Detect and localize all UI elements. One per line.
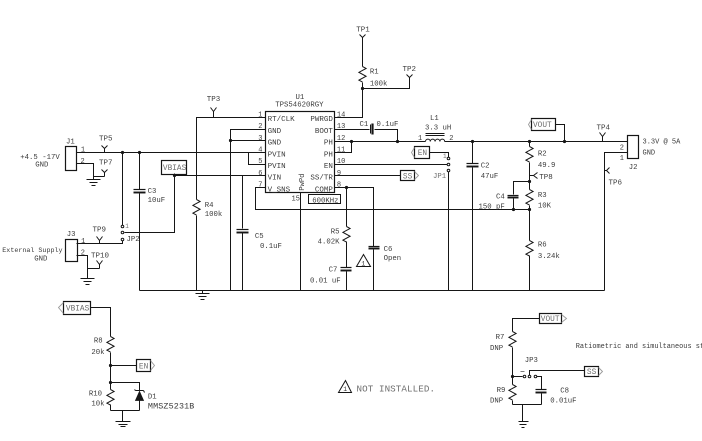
test point TP3 — [207, 96, 221, 118]
svg-text:R2: R2 — [538, 151, 547, 159]
ground below J3 — [81, 269, 95, 285]
svg-text:D1: D1 — [148, 394, 157, 402]
jumper JP3 — [513, 372, 537, 378]
test point TP7 — [99, 160, 113, 177]
node junction VBIAS VIN — [173, 174, 176, 177]
wire U1 GND pin2 — [231, 130, 266, 141]
wire to D1 branch — [111, 383, 140, 391]
test point TP5 — [99, 135, 113, 152]
wire COMP pin8 — [335, 188, 374, 247]
wire PowerPad pin15 to bus — [300, 193, 302, 291]
svg-text:PH: PH — [324, 151, 333, 159]
svg-text:10K: 10K — [538, 203, 552, 211]
net flag EN lower — [137, 360, 155, 372]
svg-text:3.24k: 3.24k — [538, 253, 561, 261]
wire D1 R10 bottom — [111, 410, 140, 412]
capacitor C5 0.1uF — [237, 176, 282, 291]
svg-text:MMSZ5231B: MMSZ5231B — [148, 402, 195, 412]
resistor R4 100k — [193, 200, 223, 291]
svg-text:3: 3 — [258, 135, 262, 143]
svg-text:11: 11 — [337, 147, 345, 155]
svg-text:R5: R5 — [331, 229, 340, 237]
svg-text:C2: C2 — [481, 163, 490, 171]
svg-text:JP1: JP1 — [433, 173, 447, 181]
node junction C1 to PH rail — [396, 140, 399, 143]
wire R9 C8 bottom — [513, 404, 542, 406]
svg-text:2: 2 — [81, 158, 85, 166]
wire JP3 pin2 to SS flag lower — [530, 371, 585, 376]
connector J2 — [620, 136, 639, 173]
svg-text:3.3V @ 5A: 3.3V @ 5A — [643, 139, 682, 147]
svg-text:150 pF: 150 pF — [479, 204, 505, 212]
svg-text:SS/TR: SS/TR — [310, 175, 333, 183]
svg-text:RT/CLK: RT/CLK — [268, 116, 296, 124]
wire JP1 pin3 to bus — [448, 172, 450, 291]
svg-text:PWRGD: PWRGD — [310, 116, 333, 124]
svg-text:R10: R10 — [89, 391, 102, 399]
svg-text:TP9: TP9 — [93, 227, 107, 235]
inductor L1 3.3uH — [418, 115, 454, 143]
600KHz note box — [309, 195, 341, 206]
svg-text:VIN: VIN — [268, 175, 282, 183]
ground below J1 — [87, 177, 101, 186]
svg-text:+4.5 -17V: +4.5 -17V — [20, 154, 60, 162]
svg-text:R1: R1 — [370, 69, 379, 77]
resistor R5 4.02K — [318, 188, 351, 268]
wire PWRGD pin14 to R1 — [335, 89, 363, 118]
wire EN flag to JP1 pin1 — [430, 153, 449, 158]
svg-text:C5: C5 — [255, 233, 264, 241]
net flag EN upper — [412, 147, 430, 159]
node junction C4 bottom sense line — [512, 208, 515, 211]
triangle note 1 near C7 — [357, 255, 371, 268]
svg-text:1: 1 — [361, 260, 365, 267]
svg-text:10k: 10k — [91, 401, 105, 409]
wire VBIAS stem to VIN line and JP2 — [125, 174, 175, 233]
wire J3 pin1 to JP2 — [77, 241, 123, 244]
svg-text:14: 14 — [337, 111, 345, 119]
svg-text:GND: GND — [643, 150, 656, 158]
connector J3 — [66, 231, 86, 261]
net flag VOUT upper — [529, 119, 556, 131]
zener diode D1 MMSZ5231B — [135, 390, 195, 412]
jumper JP2 — [121, 223, 139, 244]
resistor R9 DNP — [490, 385, 516, 406]
svg-text:1: 1 — [343, 386, 347, 393]
op-amp U1 TPS54620RGY body — [266, 94, 335, 193]
ground below D1 — [116, 411, 131, 427]
capacitor C2 47uF — [467, 142, 499, 291]
jumper JP1 — [433, 157, 450, 181]
wire VIN line pin6 — [175, 175, 266, 177]
node junction R7 R9 JP3 — [511, 375, 514, 378]
svg-text:1: 1 — [620, 155, 624, 163]
svg-text:TPS54620RGY: TPS54620RGY — [275, 101, 324, 109]
node junction rail JP2 branch — [121, 151, 124, 154]
node junction VOUT rail — [563, 140, 566, 143]
svg-text:J1: J1 — [66, 138, 75, 146]
svg-text:GND: GND — [268, 140, 282, 148]
wire V_SNS pin7 sense line — [256, 188, 530, 210]
svg-text:C7: C7 — [329, 267, 338, 275]
wire VOUT rail L1 to J2 — [445, 141, 628, 143]
wire PH pin12 rail to L1 — [335, 141, 426, 143]
svg-text:4: 4 — [258, 147, 262, 155]
node junction R10 D1 top — [109, 381, 112, 384]
svg-text:BOOT: BOOT — [315, 128, 334, 136]
wire VBIAS to R8 — [91, 308, 111, 337]
wire VOUT lower to R7 — [513, 319, 540, 332]
net flag VOUT lower — [540, 314, 567, 325]
svg-text:R7: R7 — [496, 334, 505, 342]
resistor R6 3.24k — [526, 241, 561, 291]
capacitor C4 150pF — [479, 182, 530, 212]
wire J1 pin2 to ground and TP7 — [77, 164, 105, 177]
svg-text:6: 6 — [258, 170, 262, 178]
node junction R1 TP2 PWRGD — [361, 87, 364, 90]
svg-text:PVIN: PVIN — [268, 151, 286, 159]
svg-text:Ratiometric and simultaneous s: Ratiometric and simultaneous startup — [576, 343, 702, 351]
capacitor C7 0.01uF — [310, 267, 352, 291]
triangle note 1 NOT INSTALLED — [339, 381, 352, 394]
svg-text:2: 2 — [620, 144, 624, 152]
svg-text:0.1uF: 0.1uF — [260, 243, 282, 251]
svg-text:PVIN: PVIN — [268, 163, 286, 171]
svg-text:1: 1 — [418, 135, 422, 143]
wire SS/TR pin9 to SS flag — [335, 175, 401, 177]
wire U1 GND pin3 — [231, 140, 266, 142]
node junction R3 bottom sense — [528, 208, 531, 211]
svg-text:JP2: JP2 — [127, 236, 140, 244]
wire JP2 drop from rail — [122, 153, 124, 226]
ground below JP3 — [519, 405, 529, 428]
svg-text:C6: C6 — [384, 246, 393, 254]
resistor R2 49.9 — [526, 142, 556, 190]
svg-text:PH: PH — [324, 140, 333, 148]
svg-text:GND: GND — [268, 128, 282, 136]
svg-text:2: 2 — [81, 250, 85, 258]
svg-text:49.9: 49.9 — [538, 162, 556, 170]
resistor R1 100k — [359, 41, 388, 89]
svg-text:GND: GND — [34, 255, 48, 263]
wire J3 pin2 to ground and TP10 — [77, 256, 100, 269]
ground bus wire — [140, 290, 605, 292]
svg-text:TP7: TP7 — [99, 160, 113, 168]
svg-text:1: 1 — [125, 223, 129, 230]
resistor R3 10K — [526, 190, 552, 241]
svg-text:EN: EN — [324, 163, 333, 171]
svg-text:C4: C4 — [496, 194, 505, 202]
svg-text:9: 9 — [337, 170, 341, 178]
resistor R7 DNP — [490, 332, 516, 385]
test point TP4 — [597, 125, 611, 142]
wire GND pins to bus — [230, 141, 232, 291]
node junction EN divider — [109, 364, 112, 367]
svg-text:DNP: DNP — [490, 345, 503, 353]
test point TP6 — [605, 168, 623, 188]
net flag SS upper — [401, 171, 419, 182]
wire J2 pin1 to bus — [605, 153, 628, 291]
svg-text:R3: R3 — [538, 192, 547, 200]
svg-text:L1: L1 — [430, 115, 439, 123]
svg-text:J3: J3 — [67, 231, 76, 239]
node junction COMP R5 — [345, 186, 348, 189]
svg-text:0.01uF: 0.01uF — [550, 398, 576, 406]
node junction C4 top — [528, 180, 531, 183]
svg-text:7: 7 — [258, 182, 262, 190]
node junction rail C3 branch — [138, 151, 141, 154]
svg-text:J2: J2 — [629, 164, 638, 172]
capacitor C3 10uF — [134, 153, 166, 291]
svg-text:EN: EN — [139, 363, 149, 371]
svg-text:20k: 20k — [91, 349, 105, 357]
test point TP8 — [530, 173, 553, 182]
node junction rail C2 — [471, 140, 474, 143]
svg-text:COMP: COMP — [315, 186, 334, 194]
svg-text:TP4: TP4 — [597, 125, 611, 133]
svg-text:1: 1 — [81, 238, 85, 246]
svg-text:R8: R8 — [94, 338, 103, 346]
svg-text:C8: C8 — [560, 388, 569, 396]
resistor R10 10k — [89, 390, 114, 411]
wire VOUT flag to rail — [556, 125, 565, 142]
svg-text:1: 1 — [258, 111, 262, 119]
svg-text:PwPd: PwPd — [299, 174, 307, 191]
connector J1 — [66, 138, 86, 170]
svg-text:SS: SS — [403, 173, 413, 181]
svg-text:100k: 100k — [205, 211, 223, 219]
node junction rail R2 divider — [528, 140, 531, 143]
node junction PH pins — [350, 140, 353, 143]
svg-text:EN: EN — [418, 150, 428, 158]
net flag VBIAS upper — [162, 161, 187, 175]
svg-text:C3: C3 — [148, 188, 157, 196]
wire RT/CLK pin1 to R4 — [197, 118, 266, 200]
ground symbol on bus — [196, 291, 210, 300]
svg-text:8: 8 — [337, 182, 341, 190]
svg-text:TP3: TP3 — [207, 96, 221, 104]
wire PH pin11 link — [335, 142, 352, 153]
test point TP10 — [91, 253, 110, 269]
net flag VBIAS lower — [59, 302, 91, 315]
svg-text:TP8: TP8 — [539, 174, 553, 182]
svg-text:3.3 uH: 3.3 uH — [425, 125, 451, 133]
capacitor C1 0.1uF — [360, 121, 399, 142]
test point TP9 — [93, 227, 107, 244]
capacitor C8 0.01uF — [536, 377, 577, 406]
svg-text:TP1: TP1 — [356, 27, 370, 35]
svg-text:R4: R4 — [205, 202, 214, 210]
svg-text:VBIAS: VBIAS — [66, 306, 90, 314]
svg-text:0.01 uF: 0.01 uF — [310, 278, 341, 286]
svg-text:100k: 100k — [370, 81, 388, 89]
svg-text:VBIAS: VBIAS — [163, 165, 187, 173]
svg-text:0.1uF: 0.1uF — [377, 121, 399, 129]
test point TP1 — [356, 27, 370, 41]
svg-text:TP2: TP2 — [403, 66, 417, 74]
svg-text:TP5: TP5 — [99, 135, 113, 143]
svg-text:1: 1 — [443, 153, 447, 160]
svg-text:GND: GND — [35, 162, 49, 170]
test point TP2 — [403, 66, 417, 80]
svg-text:4.02K: 4.02K — [318, 239, 341, 247]
svg-text:SS: SS — [587, 369, 597, 377]
wire TP2 to R1 node — [363, 81, 410, 89]
svg-text:600KHz: 600KHz — [312, 197, 338, 205]
wire EN pin10 to JP1 pin2 — [335, 164, 448, 166]
svg-text:VOUT: VOUT — [533, 122, 552, 130]
svg-text:Open: Open — [384, 255, 402, 263]
svg-text:15: 15 — [292, 195, 300, 203]
svg-text:C1: C1 — [360, 121, 369, 129]
capacitor C6 Open — [369, 246, 402, 291]
svg-text:TP10: TP10 — [91, 253, 110, 261]
svg-text:TP6: TP6 — [609, 180, 623, 188]
svg-text:47uF: 47uF — [481, 173, 499, 181]
node junction GND pins — [229, 139, 232, 142]
svg-text:10uF: 10uF — [148, 197, 166, 205]
wire BOOT pin13 to C1 — [335, 129, 370, 131]
svg-text:JP3: JP3 — [525, 357, 538, 365]
svg-text:R6: R6 — [538, 241, 547, 249]
net flag SS lower — [585, 367, 603, 378]
wire PVIN pin5 link — [249, 153, 266, 165]
svg-text:DNP: DNP — [490, 398, 503, 406]
wire to EN flag lower — [111, 365, 137, 367]
wire input rail J1 pin1 to U1 PVIN pin4 — [77, 152, 266, 154]
svg-text:V_SNS: V_SNS — [268, 186, 291, 194]
svg-text:External Supply: External Supply — [2, 247, 62, 255]
svg-text:NOT INSTALLED.: NOT INSTALLED. — [357, 383, 436, 394]
resistor R8 20k — [91, 337, 114, 390]
svg-text:R9: R9 — [497, 387, 506, 395]
svg-text:1: 1 — [81, 147, 85, 155]
svg-text:VOUT: VOUT — [541, 316, 560, 324]
